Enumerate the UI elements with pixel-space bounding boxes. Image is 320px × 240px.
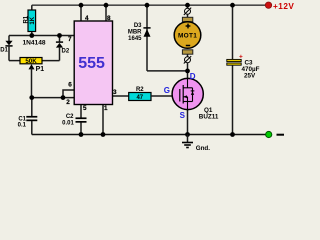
junction dots wire y=97.6 bbox=[29, 95, 34, 100]
svg-text:Gnd.: Gnd. bbox=[196, 145, 211, 152]
junction dots top rail bbox=[79, 3, 84, 8]
svg-text:R2: R2 bbox=[136, 87, 144, 93]
svg-text:47: 47 bbox=[136, 95, 143, 101]
junction dots bottom rail bbox=[79, 132, 84, 137]
svg-text:0.1: 0.1 bbox=[18, 123, 27, 129]
svg-text:555: 555 bbox=[78, 55, 105, 72]
potentiometer P1 bbox=[20, 58, 44, 98]
svg-text:+: + bbox=[239, 53, 243, 60]
wire pin6 jog bbox=[63, 90, 74, 98]
capacitor C2 bbox=[62, 105, 86, 135]
555 pin4 lead bbox=[80, 5, 82, 21]
diode D3 bbox=[128, 5, 151, 71]
svg-text:8: 8 bbox=[107, 15, 111, 22]
555 pin1 lead bbox=[102, 105, 104, 135]
svg-text:P1: P1 bbox=[36, 66, 45, 73]
motor MOT1 bbox=[174, 5, 201, 71]
svg-text:1N4148: 1N4148 bbox=[22, 40, 45, 47]
svg-text:4: 4 bbox=[85, 15, 89, 22]
svg-text:D1: D1 bbox=[0, 47, 8, 53]
svg-text:7: 7 bbox=[68, 36, 72, 43]
svg-text:MBR: MBR bbox=[128, 30, 142, 36]
svg-text:25V: 25V bbox=[244, 72, 256, 79]
wire bottom ground rail bbox=[32, 134, 266, 136]
svg-text:R1: R1 bbox=[23, 15, 29, 23]
wire pin2/pin6 wire bbox=[32, 97, 74, 99]
diode D1 bbox=[0, 36, 12, 61]
diode D2 bbox=[56, 36, 70, 61]
555 pin3 wire bbox=[113, 95, 130, 97]
wire R2 to gate bbox=[151, 95, 179, 97]
+12V terminal bbox=[265, 2, 271, 8]
junction dots wire y=35.5 bbox=[29, 33, 34, 38]
svg-text:S: S bbox=[180, 111, 186, 120]
wire drain node bbox=[147, 70, 188, 72]
svg-text:BUZ11: BUZ11 bbox=[199, 114, 219, 121]
ground bbox=[182, 135, 193, 148]
resistor R1 bbox=[23, 5, 36, 35]
svg-text:5: 5 bbox=[83, 105, 87, 112]
svg-text:D: D bbox=[190, 72, 196, 81]
op-amp U1 555 timer chip bbox=[74, 21, 112, 105]
negative terminal bbox=[266, 131, 272, 137]
svg-text:0.01: 0.01 bbox=[62, 121, 74, 127]
svg-text:1: 1 bbox=[104, 105, 108, 112]
resistor R2 bbox=[129, 87, 151, 101]
svg-text:1645: 1645 bbox=[128, 36, 142, 42]
svg-text:6: 6 bbox=[68, 82, 72, 89]
capacitor C1 bbox=[18, 98, 38, 135]
wire D1-D2 top wire to pin 7 bbox=[9, 35, 74, 37]
svg-text:2: 2 bbox=[66, 99, 70, 106]
capacitor C3 bbox=[227, 5, 260, 134]
svg-text:G: G bbox=[164, 86, 170, 95]
svg-text:MOT1: MOT1 bbox=[178, 32, 197, 39]
svg-text:+12V: +12V bbox=[273, 2, 294, 11]
wire D1 to pot bbox=[9, 60, 20, 62]
555 pin8 lead bbox=[105, 5, 107, 21]
svg-text:3: 3 bbox=[113, 89, 117, 96]
junction dot drain node bbox=[185, 69, 190, 74]
wire D2 to pot bbox=[42, 60, 60, 62]
svg-text:D2: D2 bbox=[62, 49, 70, 55]
transistor Q1 MOSFET BUZ11 bbox=[172, 71, 203, 135]
svg-text:C2: C2 bbox=[66, 114, 74, 120]
wire +12V top rail bbox=[32, 4, 266, 6]
svg-text:D3: D3 bbox=[134, 23, 142, 29]
svg-text:C1: C1 bbox=[18, 116, 26, 122]
svg-text:1K: 1K bbox=[30, 16, 36, 24]
svg-text:50K: 50K bbox=[25, 58, 37, 65]
